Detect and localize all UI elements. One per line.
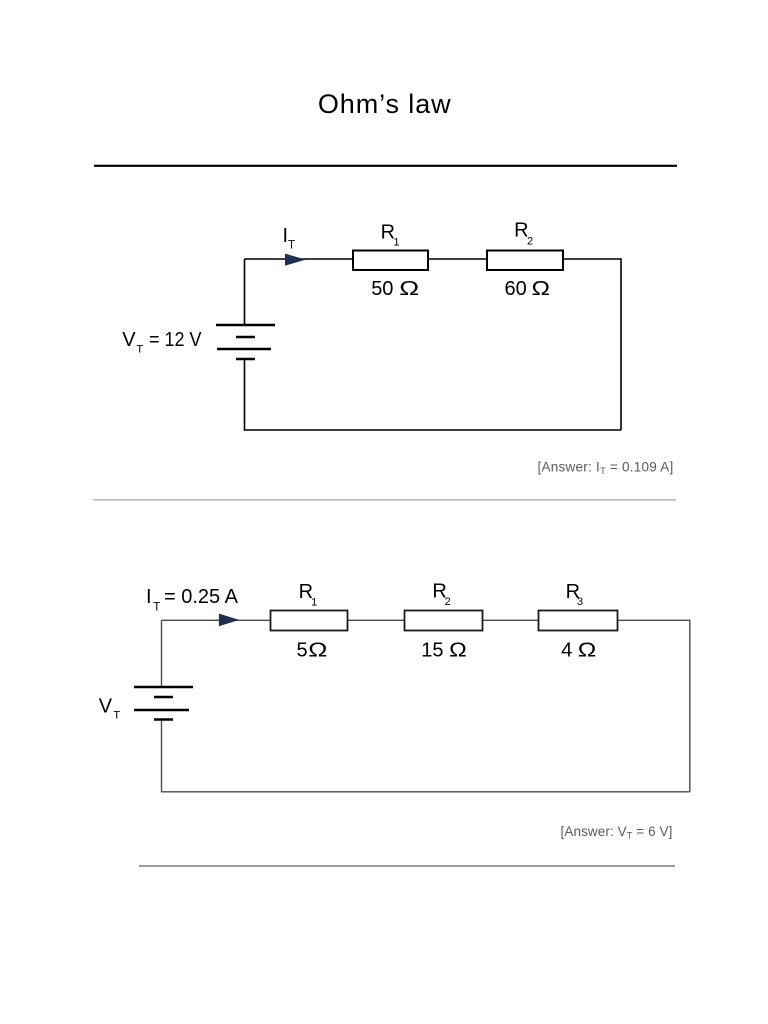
svg-text:Ohm’s law: Ohm’s law xyxy=(318,89,452,119)
svg-text:2: 2 xyxy=(445,596,451,608)
svg-text:1: 1 xyxy=(393,236,399,248)
svg-text:V: V xyxy=(99,696,113,718)
svg-text:Ω: Ω xyxy=(578,639,597,661)
svg-text:2: 2 xyxy=(527,236,533,248)
svg-text:[Answer: IT = 0.109 A]: [Answer: IT = 0.109 A] xyxy=(538,460,674,477)
svg-text:= 12 V: = 12 V xyxy=(149,329,202,351)
svg-text:4: 4 xyxy=(561,640,572,662)
svg-text:3: 3 xyxy=(577,596,583,608)
svg-text:Ω: Ω xyxy=(449,638,467,661)
svg-text:[Answer: VT = 6 V]: [Answer: VT = 6 V] xyxy=(561,824,673,841)
svg-text:Ω: Ω xyxy=(532,277,551,299)
svg-text:T: T xyxy=(136,344,143,356)
svg-text:V: V xyxy=(122,329,136,351)
svg-text:Ω: Ω xyxy=(399,277,419,299)
svg-text:T: T xyxy=(288,240,295,252)
svg-text:= 0.25 A: = 0.25 A xyxy=(164,586,239,608)
svg-text:15: 15 xyxy=(421,640,443,662)
svg-text:1: 1 xyxy=(311,597,317,609)
svg-text:T: T xyxy=(113,709,120,721)
svg-text:I: I xyxy=(146,586,152,608)
svg-text:5: 5 xyxy=(297,640,308,662)
svg-text:60: 60 xyxy=(505,278,527,300)
svg-text:Ω: Ω xyxy=(308,638,327,661)
svg-text:T: T xyxy=(153,602,160,614)
svg-text:50: 50 xyxy=(371,278,393,300)
